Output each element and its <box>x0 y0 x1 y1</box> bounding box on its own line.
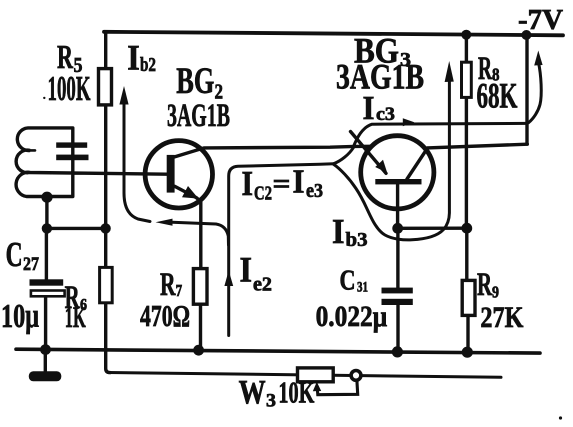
W3 wiper arrow <box>317 380 358 394</box>
wire base junction <box>398 226 467 230</box>
svg-text:b3: b3 <box>346 229 368 251</box>
svg-text:e3: e3 <box>306 180 323 202</box>
svg-text:68K: 68K <box>477 76 518 116</box>
BG2 collector wire to BG3 emitter <box>175 146 371 157</box>
svg-text:3AG1B: 3AG1B <box>336 56 424 96</box>
label 3AG1B (BG3) <box>336 56 424 96</box>
label 27K <box>480 301 524 334</box>
inductor L tank coil <box>16 128 167 197</box>
ground <box>44 350 47 371</box>
label 68K <box>477 76 518 116</box>
label 100K <box>43 69 90 108</box>
stadium fork upper branch <box>334 148 354 164</box>
svg-text:I: I <box>127 38 140 78</box>
label R5 <box>57 39 83 77</box>
node coil bottom junction <box>45 197 48 229</box>
svg-text:R: R <box>477 267 493 303</box>
svg-text:C2: C2 <box>254 183 272 205</box>
label IC2=Ie3 <box>242 164 324 205</box>
svg-text:I: I <box>332 212 345 251</box>
svg-text:BG: BG <box>176 61 214 102</box>
svg-text:I: I <box>363 90 375 127</box>
label R7 <box>160 267 182 303</box>
capacitor C31 <box>396 228 400 351</box>
label Ie2 <box>240 250 273 296</box>
label BG3 <box>354 31 411 71</box>
capacitor C27 electrolytic <box>44 228 48 349</box>
svg-text:9: 9 <box>492 283 499 302</box>
svg-text:0.022μ: 0.022μ <box>316 300 388 333</box>
svg-text:I: I <box>240 250 253 290</box>
label R6 <box>65 280 87 316</box>
BG3 collector diagonal and wire to right <box>407 144 527 179</box>
current arrow into base (left arrowhead) <box>166 222 229 245</box>
svg-text:e2: e2 <box>253 274 272 296</box>
resistor R5 <box>99 69 112 105</box>
wire coil bottom to divider <box>47 227 106 230</box>
svg-text:c3: c3 <box>376 104 395 125</box>
label W3 10K <box>239 374 315 412</box>
label BG2 <box>176 61 223 103</box>
resistor R9 <box>467 228 468 352</box>
svg-text:I: I <box>242 164 254 203</box>
current arrow Ic3 line <box>354 123 528 146</box>
svg-text:C: C <box>6 235 23 274</box>
node divider junction <box>100 223 110 233</box>
label Ib2 <box>127 38 156 78</box>
BG3 base lead <box>396 184 399 228</box>
svg-text:7: 7 <box>176 281 183 300</box>
svg-text:3AG1B: 3AG1B <box>167 98 230 134</box>
label C31 <box>340 266 369 297</box>
wire second bottom rail <box>108 373 501 378</box>
current arrow Ib2 <box>124 96 150 222</box>
current arrow Ib3 <box>334 80 450 240</box>
svg-text:27K: 27K <box>480 301 524 334</box>
transistor BG2 <box>145 141 212 208</box>
label 10u <box>1 298 39 335</box>
resistor R8 <box>465 35 468 228</box>
svg-text:I: I <box>293 164 305 201</box>
scan speck <box>559 416 562 419</box>
svg-text:C: C <box>340 266 356 297</box>
coil cusp tick <box>30 149 35 152</box>
label -7V <box>518 5 563 36</box>
svg-text:3: 3 <box>266 391 276 412</box>
svg-text:1K: 1K <box>65 301 86 334</box>
label Ib3 <box>332 212 368 251</box>
wire right vertical from rail <box>525 35 528 144</box>
svg-text:W: W <box>239 374 266 411</box>
label 1K <box>65 301 86 334</box>
label R9 <box>477 267 499 303</box>
wire left vertical (R5/R6 branch) <box>106 32 110 373</box>
resistor R7 <box>193 269 207 305</box>
node rail dots <box>461 30 471 40</box>
wire top rail -7V <box>104 32 563 36</box>
svg-text:10K: 10K <box>278 374 314 409</box>
svg-text:27: 27 <box>23 254 39 275</box>
svg-text:10μ: 10μ <box>1 298 39 335</box>
svg-text:470Ω: 470Ω <box>140 298 190 333</box>
current arrow up to rail (right) <box>529 62 542 123</box>
wire bottom rail <box>16 349 540 353</box>
resistor R6 <box>100 267 113 302</box>
svg-text:b2: b2 <box>140 54 156 76</box>
label C27 <box>6 235 40 275</box>
svg-text:31: 31 <box>357 280 368 296</box>
node bottom rail dots <box>392 346 403 357</box>
potentiometer W3 <box>298 368 334 382</box>
BG2 emitter <box>175 186 201 268</box>
svg-text:=: = <box>273 169 291 200</box>
current arrow Ie2 / IC2=Ie3 stadium <box>229 164 334 336</box>
label 470ohm <box>140 298 190 333</box>
trimmer capacitor plates <box>56 142 88 160</box>
BG3 emitter diagonal <box>351 132 387 174</box>
label Ic3 <box>363 90 396 127</box>
svg-text:100K: 100K <box>48 69 91 108</box>
label 3AG1B <box>167 98 230 134</box>
label R8 <box>478 51 500 87</box>
label 0.022u <box>316 300 388 333</box>
transistor BG3 <box>361 136 434 209</box>
